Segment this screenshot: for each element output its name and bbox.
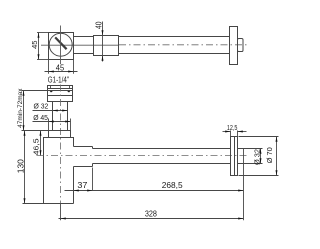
dimension 130 — [16, 131, 25, 204]
inlet tube walls — [52, 102, 54, 131]
tube section C — [119, 36, 230, 38]
dimension 12,5 — [223, 123, 247, 136]
wall flange (top view, right end) — [230, 27, 238, 65]
dimension 47min-72max — [17, 88, 48, 131]
extension line at cup nut top — [22, 130, 49, 132]
dimension Ø70 — [239, 137, 279, 176]
wire: horizontal centerline through wall flange square — [41, 44, 119, 46]
svg-text:Ø 32: Ø 32 — [34, 102, 49, 111]
svg-text:Ø 70: Ø 70 — [265, 147, 274, 163]
svg-text:268,5: 268,5 — [162, 181, 183, 190]
dimension Ø32 (outlet) — [252, 149, 261, 166]
cup bottom line with left extension — [23, 203, 74, 205]
svg-text:G1-1/4": G1-1/4" — [48, 76, 69, 85]
dimension 45 (left of square) — [30, 33, 48, 60]
wire: dashed centerline of top tube — [119, 44, 250, 46]
basin nut — [48, 91, 73, 102]
dimension Ø32 (inlet) — [33, 102, 68, 112]
svg-text:45: 45 — [30, 41, 39, 49]
svg-text:40: 40 — [94, 21, 103, 29]
svg-text:45: 45 — [56, 63, 65, 73]
nut chamfer right — [67, 91, 71, 93]
siphon cup body — [44, 138, 74, 204]
cup nut — [49, 131, 71, 138]
dimension 37 and 268,5 — [65, 168, 244, 192]
svg-text:130: 130 — [16, 158, 25, 173]
tube section A — [74, 36, 94, 38]
flange circle — [49, 33, 72, 56]
outlet horizontal centerline — [37, 155, 249, 157]
pipe stub through flange with Ø32 extension lines — [238, 148, 263, 150]
nut section B — [94, 36, 119, 56]
wall flange (bottom view) — [231, 137, 238, 176]
cup right edge lower segment — [73, 167, 75, 204]
dimension Ø45 (inlet) — [33, 113, 71, 131]
dimension 328 — [59, 149, 244, 221]
diagonal slot bar — [55, 37, 66, 49]
dimension 45 (below square) — [45, 60, 78, 74]
svg-text:328: 328 — [145, 210, 158, 219]
svg-text:12,5: 12,5 — [227, 123, 238, 132]
square vertical centerline — [60, 26, 62, 65]
pipe stub (top right) — [238, 39, 244, 52]
svg-text:Ø 32: Ø 32 — [252, 149, 261, 165]
svg-text:Ø 45: Ø 45 — [33, 113, 48, 122]
dimension 46,5 — [31, 131, 41, 156]
wall flange square (top view) — [49, 33, 74, 60]
outlet thin tube — [93, 148, 231, 150]
dimension 40 — [94, 21, 103, 62]
inlet vertical centerline — [60, 85, 62, 204]
svg-text:47min-72max: 47min-72max — [17, 88, 24, 128]
basin flange lip — [48, 86, 73, 91]
svg-text:46,5: 46,5 — [31, 139, 40, 156]
outlet large section — [74, 146, 93, 148]
svg-text:37: 37 — [77, 181, 88, 190]
nut chamfer left — [49, 91, 53, 93]
